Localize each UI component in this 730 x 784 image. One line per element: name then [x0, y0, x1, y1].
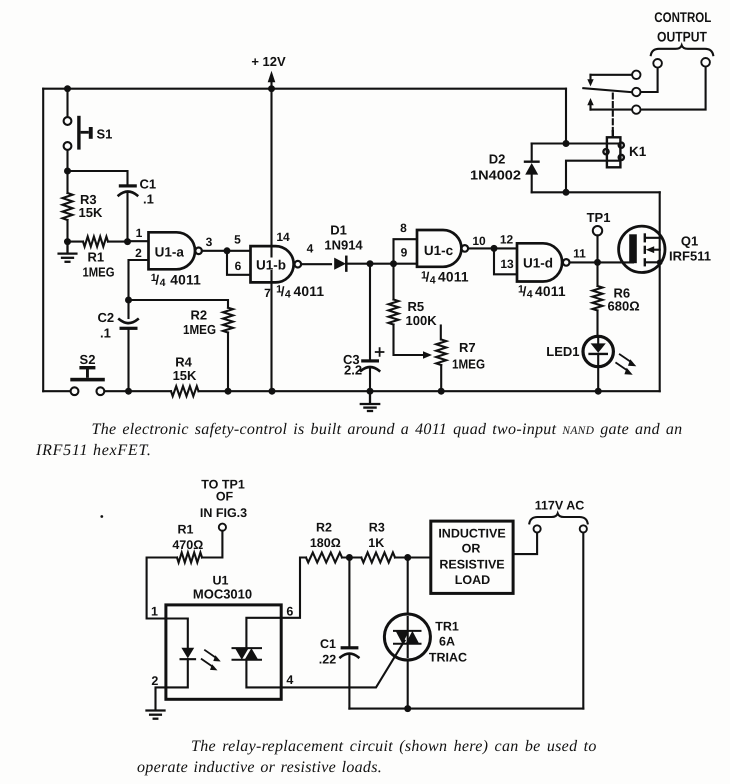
- svg-text:K1: K1: [629, 144, 647, 159]
- resistor R5 100K: [389, 264, 438, 359]
- wire: U1-c output (pin 10) to U1-d inputs: [468, 247, 494, 249]
- wire: ground bottom rail (S2 to R4 to right end): [104, 390, 171, 392]
- svg-text:1MEG: 1MEG: [83, 265, 115, 280]
- terminal: input from TP1: [219, 524, 226, 531]
- wire: +12V vertical line down through U1-b (pin14 to pin7): [270, 89, 272, 392]
- node: junction dot R3/R1/ground: [64, 238, 71, 245]
- switch S1 (normally-open pushbutton): [64, 116, 113, 150]
- svg-text:OR: OR: [462, 542, 481, 556]
- node: +12V junction dot on top rail: [268, 85, 275, 92]
- svg-text:R2: R2: [191, 308, 208, 323]
- svg-text:.22: .22: [319, 653, 336, 667]
- svg-text:470Ω: 470Ω: [172, 538, 203, 552]
- capacitor C3 2.2 (electrolytic): [343, 264, 384, 392]
- svg-text:1MEG: 1MEG: [183, 322, 216, 337]
- wire: U1-d pin 13 loop lead: [494, 248, 517, 274]
- svg-text:INDUCTIVE: INDUCTIVE: [438, 527, 505, 541]
- svg-text:U1-c: U1-c: [424, 243, 454, 258]
- diode D2 1N4002: [470, 144, 539, 193]
- svg-text:C1: C1: [320, 637, 336, 651]
- svg-text:U1: U1: [213, 574, 229, 588]
- wire: left border vertical: [42, 89, 44, 392]
- node: junction dot U1-c out / U1-d pins 12,13: [491, 245, 498, 252]
- wire: LED1 cathode to bottom rail: [597, 367, 599, 392]
- node: junction dot D2 anode line: [563, 189, 570, 196]
- wire: U1-c pin 8 loop lead: [394, 239, 418, 264]
- ground symbol (below R3/R1 junction): [59, 242, 77, 262]
- capacitor C1 .22 (lower circuit): [319, 558, 359, 709]
- svg-text:LED1: LED1: [546, 344, 579, 359]
- svg-text:C2: C2: [98, 310, 115, 325]
- svg-text:4011: 4011: [294, 284, 325, 299]
- svg-text:180Ω: 180Ω: [310, 536, 341, 550]
- svg-text:4: 4: [527, 289, 533, 301]
- svg-text:TP1: TP1: [587, 210, 611, 225]
- svg-text:1K: 1K: [368, 536, 384, 550]
- wire: S1 upper lead: [66, 89, 68, 117]
- wire: D2 anode bottom line to Q1 drain: [532, 191, 660, 193]
- resistor R1 1MEG: [68, 237, 128, 280]
- wire: to U1-a pin 1: [128, 240, 149, 242]
- resistor R2 180ohm (lower circuit): [306, 521, 361, 563]
- label TO TP1 OF IN FIG.3: [200, 478, 247, 521]
- svg-text:OUTPUT: OUTPUT: [657, 29, 707, 45]
- triac TR1 6A: [384, 558, 467, 709]
- node: junction dot S1/R3/C1: [64, 168, 71, 175]
- svg-text:C1: C1: [140, 177, 157, 192]
- relay contact NC line with arrow: [587, 71, 640, 87]
- load box INDUCTIVE OR RESISTIVE LOAD: [431, 521, 513, 593]
- svg-text:1: 1: [151, 605, 158, 619]
- svg-text:4011: 4011: [438, 270, 469, 285]
- svg-text:6: 6: [235, 259, 242, 273]
- svg-text:R5: R5: [408, 299, 425, 314]
- svg-text:IRF511 hexFET.: IRF511 hexFET.: [35, 442, 152, 459]
- LED1 indicator: [546, 336, 636, 375]
- svg-text:2: 2: [135, 246, 142, 260]
- node: junction dot TR1/bottom rail: [404, 705, 411, 712]
- svg-text:7: 7: [264, 286, 271, 300]
- wire: pin 6 up to R2: [281, 558, 306, 618]
- svg-text:1: 1: [136, 226, 143, 240]
- svg-text:R1: R1: [88, 250, 105, 265]
- caption: figure 1: [35, 421, 682, 459]
- wire: U1-b output (pin 4) to D1 anode: [301, 263, 331, 265]
- svg-text:1N914: 1N914: [324, 238, 363, 253]
- svg-text:IRF511: IRF511: [669, 249, 711, 264]
- node: junction dot U1-a out / U1-b pins 5,6: [224, 247, 231, 254]
- node: junction dot LED1/bottom rail: [595, 388, 602, 395]
- svg-text:TRIAC: TRIAC: [429, 651, 467, 665]
- svg-text:4011: 4011: [535, 284, 566, 299]
- NAND gate U1-c (1/4 4011): [417, 230, 469, 286]
- node: junction dot TP1/R6/gate: [594, 259, 601, 266]
- caption: figure 2: [137, 738, 597, 776]
- brace under CONTROL OUTPUT: [651, 45, 713, 55]
- svg-text:4011: 4011: [170, 272, 201, 287]
- wire: junction to C1 top: [68, 171, 128, 184]
- wire: +12V top rail: [43, 88, 566, 90]
- wire: U1-b pin 6 loop lead: [227, 251, 251, 275]
- svg-text:OF: OF: [216, 490, 234, 504]
- svg-text:8: 8: [400, 221, 407, 235]
- node: junction dot R7/bottom rail: [438, 388, 445, 395]
- capacitor C2 .1: [98, 300, 138, 391]
- relay contact NO line with arrow: [587, 98, 640, 114]
- wire: D2 cathode line to K1 coil top: [532, 142, 620, 144]
- svg-text:RESISTIVE: RESISTIVE: [439, 558, 504, 572]
- wire: common contact to left output terminal: [641, 68, 658, 92]
- svg-text:R7: R7: [459, 340, 476, 355]
- svg-text:LOAD: LOAD: [455, 573, 490, 587]
- svg-text:R2: R2: [316, 521, 332, 535]
- svg-text:IN FIG.3: IN FIG.3: [200, 506, 247, 520]
- svg-text:4: 4: [307, 242, 314, 256]
- svg-text:.1: .1: [100, 326, 111, 341]
- wire: load box to 117V AC left terminal: [513, 533, 537, 555]
- wire: S1 lower lead to junction: [66, 150, 68, 171]
- MOSFET Q1 IRF511: [619, 226, 711, 272]
- svg-text:5: 5: [234, 233, 241, 247]
- svg-text:2: 2: [151, 674, 158, 688]
- wire: opto pin 4 to TR1 gate: [281, 641, 404, 688]
- svg-text:4: 4: [430, 274, 436, 286]
- wire: terminal down to R1 right lead: [202, 531, 222, 558]
- NAND gate U1-d (1/4 4011): [517, 243, 570, 300]
- wire: pin 2 to ground: [156, 687, 166, 710]
- node: junction dot R2/bottom rail: [225, 388, 232, 395]
- node: junction dot U1-b pin7 / bottom rail: [269, 388, 276, 395]
- wire: bottom rail continues to Q1 source corner: [199, 390, 660, 392]
- svg-text:6: 6: [286, 605, 293, 619]
- wire: dashed mechanical link armature to K1: [612, 94, 614, 132]
- switch S2 (normally-open pushbutton): [70, 352, 105, 395]
- svg-text:15K: 15K: [173, 368, 197, 383]
- svg-text:The relay-replacement circuit: The relay-replacement circuit (shown her…: [191, 738, 597, 755]
- NAND gate U1-a (1/4 4011): [149, 232, 202, 289]
- svg-text:S1: S1: [97, 127, 113, 142]
- node: junction dot C3 tap: [367, 260, 374, 267]
- svg-text:117V AC: 117V AC: [535, 499, 585, 513]
- svg-text:100K: 100K: [406, 313, 438, 328]
- terminal: control output left: [653, 59, 662, 68]
- svg-text:9: 9: [401, 246, 408, 260]
- svg-text:S2: S2: [80, 352, 96, 367]
- wire: rail corner down to relay junction: [565, 89, 567, 144]
- svg-text:680Ω: 680Ω: [608, 299, 640, 314]
- label CONTROL OUTPUT: [654, 9, 711, 45]
- wire: U1-a pin 2 lead down to C2 junction: [129, 260, 149, 300]
- svg-text:U1-a: U1-a: [155, 244, 185, 259]
- node: S1 tap junction dot on top rail: [64, 85, 71, 92]
- wire: U1-d pin 12 lead: [494, 247, 517, 249]
- node: junction dot pin2/C2/R2: [125, 297, 132, 304]
- svg-text:+ 12V: + 12V: [251, 54, 286, 69]
- opto internal LED emitter: [166, 619, 221, 688]
- brace under 117V AC: [529, 514, 587, 524]
- capacitor C1 .1: [119, 177, 157, 242]
- node: junction dot R1/C1/pin1: [124, 238, 131, 245]
- svg-text:R3: R3: [369, 521, 385, 535]
- wire: U1-d output (pin 11) to Q1 gate: [570, 261, 633, 263]
- svg-text:U1-d: U1-d: [523, 256, 553, 271]
- svg-text:The electronic safety-control: The electronic safety-control is built a…: [92, 421, 683, 438]
- wire: +12V vertical visible through U1-b body: [270, 246, 272, 282]
- svg-text:1MEG: 1MEG: [452, 357, 485, 372]
- svg-text:TR1: TR1: [435, 620, 459, 634]
- wire: D1 cathode to U1-c inputs: [346, 263, 417, 265]
- svg-text:10: 10: [472, 234, 486, 248]
- svg-text:12: 12: [500, 233, 514, 247]
- wire: right terminal down to bottom rail: [582, 533, 584, 709]
- svg-text:1N4002: 1N4002: [470, 168, 521, 183]
- relay coil K1: [603, 131, 646, 167]
- node: junction dot R2/C1: [346, 554, 353, 561]
- svg-text:R1: R1: [178, 523, 194, 537]
- relay common contact circle: [632, 88, 640, 96]
- terminal: 117V AC left: [534, 525, 541, 532]
- potentiometer R7 1MEG: [436, 326, 485, 392]
- wire: U1-b pin 5 lead: [227, 250, 251, 252]
- NAND gate U1-b (1/4 4011): [251, 246, 325, 301]
- resistor R1 470ohm (lower circuit): [147, 523, 204, 619]
- svg-text:11: 11: [573, 247, 586, 261]
- ground symbol (bottom rail): [361, 391, 379, 411]
- wire: ground bottom rail (left of S2): [43, 390, 70, 392]
- wire: U1-a output (pin 3) to U1-b inputs: [202, 250, 227, 252]
- node: junction dot R3/TR1: [404, 554, 411, 561]
- svg-text:.1: .1: [143, 192, 154, 207]
- wire: NO contact to right output terminal: [641, 67, 706, 110]
- svg-text:6A: 6A: [439, 635, 455, 649]
- svg-text:D1: D1: [330, 223, 347, 238]
- resistor R3 15K: [63, 171, 103, 242]
- node: junction dot C3/ground/bottom rail: [367, 388, 374, 395]
- stray period mark: [100, 515, 103, 518]
- svg-text:2.2: 2.2: [344, 363, 362, 378]
- svg-text:MOC3010: MOC3010: [193, 587, 252, 602]
- resistor R4 15K (inline bottom rail): [171, 386, 199, 396]
- wire: K1 coil bottom return: [566, 161, 620, 193]
- test point TP1: [587, 210, 611, 262]
- opto internal phototriac: [233, 618, 282, 688]
- resistor R3 1K (lower circuit): [361, 521, 431, 563]
- terminal: control output right: [701, 58, 710, 67]
- resistor R6 680ohm: [593, 262, 640, 336]
- svg-text:Q1: Q1: [681, 234, 698, 249]
- svg-text:4: 4: [286, 673, 293, 687]
- svg-text:15K: 15K: [79, 205, 103, 220]
- svg-text:operate inductive or resistive: operate inductive or resistive loads.: [137, 759, 382, 776]
- svg-text:14: 14: [276, 230, 290, 244]
- svg-text:3: 3: [206, 235, 213, 249]
- node: junction dot Q1 source / vertical: [657, 259, 663, 265]
- wire: right vertical (relay bottom to Q1 drain/source to rail): [659, 192, 661, 391]
- node: junction dot R5 / U1-c pins tap: [390, 260, 397, 267]
- svg-text:CONTROL: CONTROL: [654, 9, 711, 25]
- terminal: 117V AC right: [580, 525, 587, 532]
- svg-text:13: 13: [500, 257, 514, 271]
- svg-text:4: 4: [285, 289, 291, 301]
- svg-text:4: 4: [160, 277, 166, 289]
- ground symbol (lower circuit): [147, 711, 165, 719]
- diode D1 1N914: [324, 223, 363, 271]
- node: junction dot C2/bottom rail: [125, 388, 132, 395]
- power +12V arrow and label: [251, 54, 286, 89]
- relay contacts: armature (common pole): [583, 88, 633, 92]
- resistor R2 1MEG: [129, 300, 234, 391]
- node: junction dot relay coil top: [563, 140, 570, 147]
- optocoupler U1 MOC3010 box: [166, 605, 281, 699]
- svg-text:D2: D2: [489, 152, 506, 167]
- wire: lower bottom rail: [349, 708, 583, 710]
